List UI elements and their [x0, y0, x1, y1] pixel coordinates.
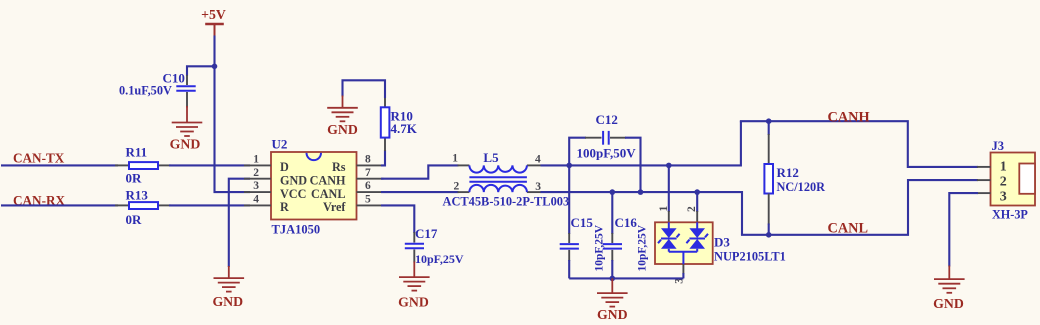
J3 pin 2 stub — [977, 179, 991, 181]
node CANH junction at D3 pin1 — [666, 163, 672, 169]
svg-text:4.7K: 4.7K — [391, 121, 418, 136]
U2 pin 6 stub — [357, 180, 384, 192]
svg-text:10pF,25V: 10pF,25V — [637, 224, 649, 271]
wire C15 branch — [568, 165, 570, 234]
ground GND4 (C17) — [398, 262, 429, 310]
wire J3 pin 3 to ground — [949, 193, 978, 266]
svg-text:C17: C17 — [415, 226, 438, 241]
svg-text:8: 8 — [365, 154, 371, 166]
svg-text:7: 7 — [365, 167, 371, 179]
svg-text:NC/120R: NC/120R — [777, 180, 826, 194]
J3 pin 1 stub — [977, 166, 991, 168]
svg-text:CANH: CANH — [828, 109, 870, 125]
ground GND1 (C10) — [170, 106, 203, 152]
resistor R12 — [764, 121, 825, 235]
svg-text:ACT45B-510-2P-TL003: ACT45B-510-2P-TL003 — [443, 194, 570, 208]
wire U2 pin 8 to R10 — [381, 150, 385, 165]
power +5V — [201, 7, 226, 37]
capacitor C12 — [577, 112, 637, 161]
capacitor C16 — [603, 215, 649, 272]
svg-text:C12: C12 — [596, 112, 618, 127]
node CANL junction at C16 — [610, 189, 616, 195]
svg-text:1: 1 — [1000, 159, 1007, 174]
wire C16 branch — [611, 192, 613, 234]
svg-text:5: 5 — [365, 194, 371, 206]
svg-text:GND: GND — [933, 296, 964, 311]
svg-text:0.1uF,50V: 0.1uF,50V — [119, 83, 172, 97]
wire ground rail — [569, 277, 683, 279]
U2 pin 7 stub — [357, 167, 384, 179]
ground GND3 (R10) — [327, 96, 358, 138]
capacitor C15 — [560, 215, 606, 272]
wire C12 branch right down to CANL — [625, 138, 641, 192]
svg-text:100pF,50V: 100pF,50V — [577, 146, 637, 161]
U2 pin names — [280, 160, 346, 214]
wire D3 pin 2 from CANL — [696, 192, 698, 223]
wire D3 pin 1 from CANH — [668, 165, 670, 223]
node gnd rail junction — [610, 276, 616, 282]
svg-text:10pF,25V: 10pF,25V — [415, 252, 464, 266]
wire C15 bottom to gnd rail — [568, 260, 570, 278]
svg-text:0R: 0R — [126, 212, 143, 227]
op-amp U2 TJA1050 body — [271, 137, 357, 237]
svg-text:Vref: Vref — [323, 200, 346, 214]
svg-text:2: 2 — [1000, 175, 1007, 190]
svg-text:1: 1 — [253, 154, 259, 166]
wire R10 top to ground — [343, 80, 386, 98]
capacitor C10 — [119, 71, 196, 108]
svg-text:R13: R13 — [126, 187, 149, 202]
wire C16 bottom to gnd rail — [611, 260, 613, 278]
svg-text:0R: 0R — [126, 171, 143, 186]
svg-text:TJA1050: TJA1050 — [272, 223, 321, 237]
wire junction to C10 — [187, 66, 214, 76]
node CANH junction at R12 top — [766, 118, 772, 124]
U2 pin 2 stub — [244, 167, 271, 179]
U2 pin 4 stub — [244, 194, 271, 206]
svg-text:3: 3 — [1000, 190, 1007, 205]
connector J3 XH-3P — [991, 139, 1036, 222]
wire R13 to U2 pin 4 — [169, 204, 250, 206]
ground GND2 (U2 pin2) — [212, 266, 244, 309]
svg-text:XH-3P: XH-3P — [992, 208, 1028, 222]
wire choke pin 4 to CANH rail corner — [541, 121, 741, 165]
node +5V junction — [212, 64, 218, 70]
svg-text:3: 3 — [535, 181, 541, 193]
svg-text:C15: C15 — [571, 215, 594, 230]
wire U2 pin 5 to C17 — [381, 205, 414, 233]
svg-text:R12: R12 — [777, 165, 799, 180]
svg-text:R11: R11 — [126, 145, 148, 160]
svg-text:CAN-TX: CAN-TX — [13, 150, 65, 165]
wire D3 pin 3 to gnd rail — [682, 264, 684, 278]
node CANL junction at C12 — [638, 189, 644, 195]
svg-text:R: R — [280, 200, 289, 214]
svg-text:2: 2 — [454, 180, 460, 192]
svg-text:GND: GND — [212, 294, 243, 309]
resistor R10 — [381, 97, 418, 151]
U2 pin 5 stub — [357, 194, 384, 206]
svg-text:4: 4 — [253, 194, 259, 206]
svg-text:GND: GND — [327, 122, 358, 137]
svg-text:C16: C16 — [615, 215, 638, 230]
node CANL junction at R12 bottom — [766, 232, 772, 238]
node CANL junction at D3 pin2 — [694, 189, 700, 195]
wire CAN-TX to R11 — [1, 164, 118, 166]
diode D3 NUP2105LT1 — [655, 206, 786, 284]
J3 pin 3 stub — [977, 192, 991, 194]
wire choke pin 3 to CANL corner — [541, 192, 743, 235]
node CANH junction at C15 — [566, 163, 572, 169]
U2 pin 1 stub — [244, 154, 271, 166]
U2 pin 8 stub — [357, 154, 384, 166]
wire CANL rail to J3 pin 2 — [742, 180, 978, 235]
capacitor C17 — [405, 226, 464, 266]
wire C12 branch left — [569, 138, 586, 166]
ground GND6 (J3) — [933, 266, 964, 311]
svg-text:2: 2 — [686, 206, 698, 212]
svg-text:GND: GND — [398, 295, 429, 310]
svg-text:GND: GND — [170, 137, 201, 152]
svg-text:CANL: CANL — [828, 220, 869, 236]
wire CANH rail to J3 pin 1 — [741, 121, 978, 167]
wire U2 pin 7 up to choke pin 1 — [381, 165, 459, 178]
svg-text:VCC: VCC — [280, 187, 306, 201]
svg-text:Rs: Rs — [332, 160, 346, 174]
svg-text:4: 4 — [535, 154, 541, 166]
ground GND5 (rail) — [597, 278, 628, 321]
svg-text:+5V: +5V — [201, 7, 226, 22]
svg-text:6: 6 — [365, 180, 371, 192]
wire R11 to U2 pin 1 — [169, 164, 250, 166]
inductor L5 common-mode choke — [443, 150, 570, 209]
svg-text:L5: L5 — [483, 150, 499, 165]
svg-text:D: D — [280, 160, 289, 174]
wire CAN-RX to R13 — [1, 204, 118, 206]
wire U2 pin 2 to ground — [229, 179, 250, 267]
svg-text:CANH: CANH — [310, 174, 346, 188]
resistor R13 — [115, 187, 171, 227]
svg-text:1: 1 — [452, 153, 458, 165]
svg-text:3: 3 — [253, 180, 259, 192]
svg-text:GND: GND — [597, 307, 628, 322]
svg-text:1: 1 — [658, 206, 670, 212]
svg-text:U2: U2 — [272, 137, 288, 152]
svg-text:D3: D3 — [714, 235, 730, 250]
resistor R11 — [115, 145, 171, 186]
svg-text:J3: J3 — [992, 139, 1005, 153]
svg-text:CANL: CANL — [311, 187, 346, 201]
svg-text:NUP2105LT1: NUP2105LT1 — [714, 249, 786, 263]
wire U2 pin 6 to choke pin 2 — [381, 191, 459, 193]
svg-text:2: 2 — [253, 167, 259, 179]
U2 pin 3 stub — [244, 180, 271, 192]
wire +5V rail down to VCC pin 3 — [215, 36, 251, 193]
svg-text:GND: GND — [280, 174, 307, 188]
